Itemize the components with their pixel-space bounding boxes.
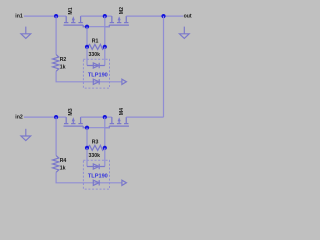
wire R1 left down to photodiode anode <box>86 47 88 66</box>
svg-text:out: out <box>184 14 192 20</box>
svg-text:330k: 330k <box>89 52 101 58</box>
transistor M2 (mirrored) <box>105 16 129 27</box>
junction R1 right pin <box>103 45 107 49</box>
svg-text:330k: 330k <box>89 153 101 159</box>
resistor R1 <box>87 44 105 49</box>
wire lower half output up to out node <box>163 16 165 117</box>
optocoupler U2 TLP190 package outline <box>83 160 109 189</box>
wire left junction down to R4 <box>55 117 57 156</box>
wire gate node down to R3 left <box>86 128 88 148</box>
wire common gate bus <box>87 127 109 129</box>
svg-text:M3: M3 <box>68 108 74 115</box>
junction R3 left pin <box>85 146 89 150</box>
svg-text:1k: 1k <box>60 166 66 172</box>
LED cathode arrow marker of U1 <box>122 79 127 84</box>
wire output junction to out label <box>164 15 184 17</box>
wire M2 drain to output node <box>126 15 163 17</box>
transistor M3 <box>64 117 88 128</box>
junction in1 node <box>54 14 58 18</box>
svg-text:M4: M4 <box>119 108 125 115</box>
svg-text:1k: 1k <box>60 65 66 71</box>
junction common gate node <box>85 25 89 29</box>
wire R4 to LED anode <box>56 172 122 183</box>
ground symbol below out <box>179 27 189 39</box>
junction R3 right pin <box>103 146 107 150</box>
wire common gate bus <box>87 26 109 28</box>
photodiode of U1 <box>87 63 105 68</box>
svg-text:R4: R4 <box>60 158 67 164</box>
svg-text:in1: in1 <box>15 14 23 20</box>
wire source node down to R3 right <box>104 117 106 148</box>
wire left junction down to R2 <box>55 16 57 55</box>
svg-text:TLP190: TLP190 <box>88 174 108 180</box>
wire R1 right down to photodiode cathode <box>104 47 106 66</box>
wire in2 input to left junction <box>24 116 56 118</box>
resistor R3 <box>87 145 105 150</box>
svg-text:M1: M1 <box>68 7 74 14</box>
wire R3 right down to photodiode cathode <box>104 148 106 167</box>
wire gate node down to R1 left <box>86 27 88 47</box>
wire source node down to R1 right <box>104 16 106 47</box>
junction common gate node <box>85 126 89 130</box>
svg-text:R3: R3 <box>92 139 99 145</box>
wire R2 to LED anode <box>56 71 122 82</box>
transistor M4 (mirrored) <box>105 117 129 128</box>
svg-text:TLP190: TLP190 <box>88 73 108 79</box>
wire left junction to M3 drain <box>56 116 66 118</box>
resistor R4 <box>53 156 59 173</box>
transistor M1 <box>64 16 88 27</box>
wire common source: M3 source to M4 source <box>81 116 112 118</box>
input LED of U2 <box>93 180 99 185</box>
resistor R2 <box>53 55 59 72</box>
LED cathode arrow marker of U2 <box>122 180 127 185</box>
wire in1 input to left junction <box>24 15 56 17</box>
junction common source node <box>103 14 107 18</box>
ground symbol below in1 <box>21 27 31 39</box>
svg-text:M2: M2 <box>119 7 125 14</box>
wire M4 drain to output node <box>126 116 163 118</box>
photodiode of U2 <box>87 164 105 169</box>
wire R3 left down to photodiode anode <box>86 148 88 167</box>
wire common source: M1 source to M2 source <box>81 15 112 17</box>
junction out node <box>161 14 165 18</box>
svg-text:R2: R2 <box>60 57 67 63</box>
junction R1 left pin <box>85 45 89 49</box>
svg-text:in2: in2 <box>15 115 23 121</box>
ground symbol below in2 <box>21 129 31 141</box>
junction in2 node <box>54 115 58 119</box>
input LED of U1 <box>93 79 99 84</box>
optocoupler U1 TLP190 package outline <box>83 59 109 88</box>
wire left junction to M1 drain <box>56 15 66 17</box>
junction common source node <box>103 115 107 119</box>
svg-text:R1: R1 <box>92 38 99 44</box>
